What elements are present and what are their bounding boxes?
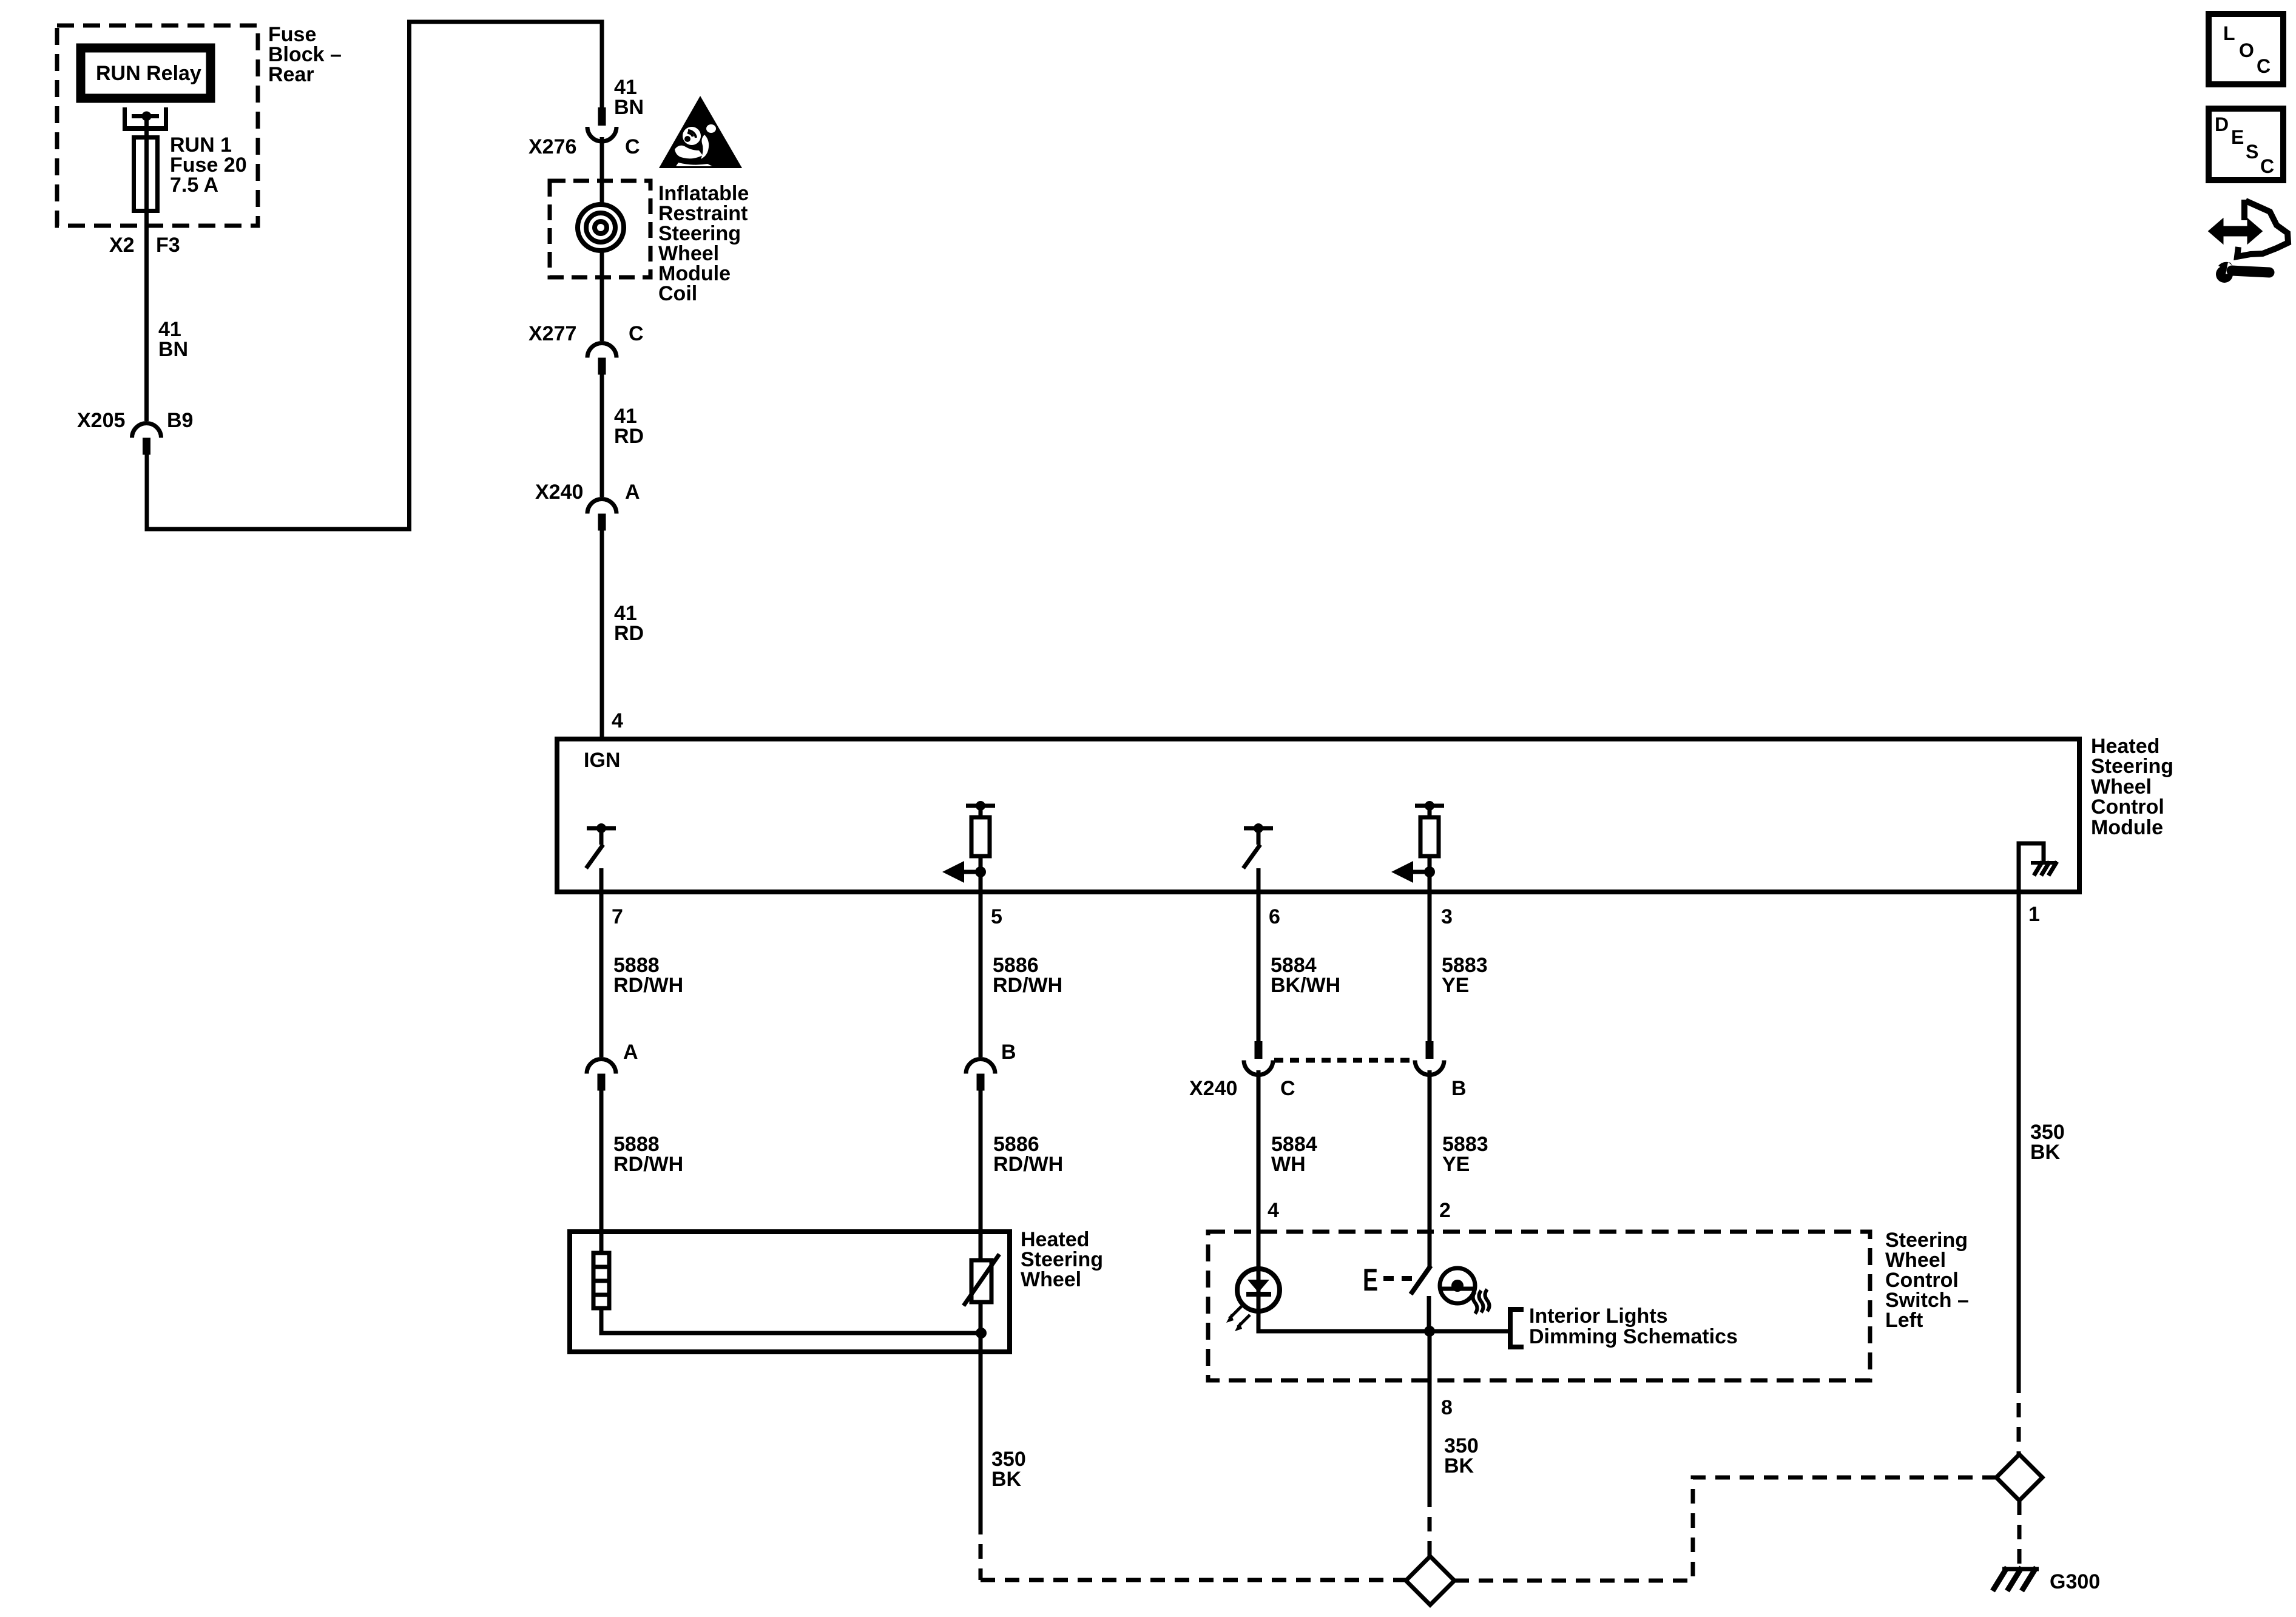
svg-text:YE: YE bbox=[1442, 974, 1469, 997]
svg-text:B9: B9 bbox=[167, 409, 193, 432]
dashed wire from mid splice to right splice bbox=[1454, 1477, 1996, 1581]
wire 5888 RD/WH A to heated wheel bbox=[601, 1091, 683, 1254]
svg-text:X2: X2 bbox=[109, 234, 135, 257]
svg-text:8: 8 bbox=[1441, 1396, 1453, 1419]
svg-text:X277: X277 bbox=[528, 322, 576, 345]
DESC reference box bbox=[2209, 109, 2283, 180]
repair/handling icon (hand with arrow and wrench) bbox=[2209, 200, 2288, 283]
svg-text:1: 1 bbox=[2028, 903, 2040, 926]
svg-text:C: C bbox=[2260, 155, 2274, 177]
switch blade with E terminal bbox=[1363, 1263, 1431, 1331]
svg-text:BK/WH: BK/WH bbox=[1271, 974, 1340, 997]
wire 41 RD lower bbox=[602, 531, 644, 740]
svg-text:BN: BN bbox=[614, 96, 644, 119]
svg-text:C: C bbox=[625, 135, 640, 158]
svg-text:RD/WH: RD/WH bbox=[613, 974, 683, 997]
svg-text:G300: G300 bbox=[2050, 1570, 2100, 1593]
svg-text:RD: RD bbox=[614, 425, 644, 448]
wire 41 RD upper bbox=[602, 375, 644, 498]
svg-text:Wheel: Wheel bbox=[1021, 1268, 1081, 1291]
Heated Steering Wheel Control Module box bbox=[557, 739, 2079, 892]
svg-text:X240: X240 bbox=[1189, 1077, 1237, 1100]
svg-text:A: A bbox=[625, 481, 640, 504]
svg-text:IGN: IGN bbox=[584, 749, 620, 772]
wire 350 BK pin 1 bbox=[2019, 894, 2065, 1379]
label Fuse Block - Rear bbox=[268, 23, 342, 86]
wire 5883 YE X240 B to switch bbox=[1430, 1070, 1488, 1266]
svg-text:Left: Left bbox=[1885, 1309, 1923, 1332]
svg-text:RD/WH: RD/WH bbox=[993, 974, 1062, 997]
airbag warning triangle icon bbox=[659, 96, 742, 168]
wire 350 BK from pin 8 bbox=[1430, 1382, 1479, 1556]
svg-text:L: L bbox=[2223, 22, 2235, 44]
ground G300 bbox=[1993, 1567, 2100, 1593]
svg-text:7: 7 bbox=[612, 905, 623, 928]
connector X240 pin A bbox=[535, 481, 640, 531]
svg-text:A: A bbox=[623, 1041, 638, 1064]
svg-text:RD/WH: RD/WH bbox=[613, 1153, 683, 1176]
svg-text:X276: X276 bbox=[528, 135, 576, 158]
svg-text:S: S bbox=[2246, 141, 2258, 163]
SIR coil dashed box bbox=[550, 181, 650, 277]
internal ground pin 1 bbox=[2019, 843, 2057, 894]
wire from X205 down, right, up and over to 41 BN drop bbox=[147, 22, 602, 529]
fuse RUN 1 / Fuse 20 / 7.5 A bbox=[134, 133, 247, 211]
svg-text:RUN Relay: RUN Relay bbox=[96, 62, 201, 85]
heated wheel internal wire bbox=[601, 1308, 987, 1338]
wire 5886 RD/WH B to heated wheel bbox=[981, 1091, 1063, 1261]
LED indicator bbox=[1226, 1269, 1280, 1331]
dashed harness line between X240 C and B bbox=[1274, 1058, 1414, 1063]
splice diamond (right) bbox=[1996, 1454, 2042, 1501]
svg-text:E: E bbox=[2231, 126, 2244, 148]
wire 5883 YE pin 3 bbox=[1430, 894, 1488, 1041]
dashed 350 BK down to right splice bbox=[2017, 1379, 2021, 1454]
svg-text:BK: BK bbox=[1444, 1454, 1474, 1477]
clockspring coil bbox=[578, 204, 624, 251]
svg-text:WH: WH bbox=[1271, 1153, 1306, 1176]
connector X276 pin C bbox=[528, 107, 640, 158]
svg-text:Module: Module bbox=[2091, 816, 2163, 839]
internal switch pin 6 bbox=[1243, 823, 1273, 894]
svg-text:C: C bbox=[1280, 1077, 1295, 1100]
svg-text:C: C bbox=[2257, 55, 2271, 77]
internal driver/resistor pin 3 bbox=[1391, 801, 1444, 894]
connector X277 pin C bbox=[528, 322, 644, 375]
svg-text:RD/WH: RD/WH bbox=[993, 1153, 1063, 1176]
label Steering Wheel Control Switch - Left bbox=[1885, 1229, 1969, 1332]
svg-text:Rear: Rear bbox=[268, 63, 314, 86]
svg-text:C: C bbox=[629, 322, 644, 345]
wire X276 to coil bbox=[600, 137, 604, 206]
connector X240 pin B (switch side) bbox=[1415, 1041, 1467, 1100]
svg-text:BN: BN bbox=[158, 338, 188, 361]
wire 5886 RD/WH pin 5 to B bbox=[981, 894, 1062, 1057]
svg-text:E: E bbox=[1363, 1263, 1378, 1298]
wire 350 BK from heated wheel bbox=[981, 1354, 1406, 1580]
wire coil to X277 bbox=[600, 251, 604, 341]
LOC reference box bbox=[2209, 14, 2283, 84]
svg-text:7.5 A: 7.5 A bbox=[170, 174, 218, 197]
svg-text:4: 4 bbox=[612, 709, 623, 732]
label 41 BN (left) bbox=[158, 318, 188, 361]
wire 5884 BK/WH pin 6 bbox=[1258, 894, 1340, 1041]
label Inflatable Restraint Steering Wheel Module Coil bbox=[658, 182, 749, 305]
svg-text:B: B bbox=[1001, 1041, 1016, 1064]
Heated Steering Wheel box bbox=[570, 1232, 1010, 1352]
svg-text:Interior Lights: Interior Lights bbox=[1529, 1305, 1668, 1328]
svg-text:5: 5 bbox=[991, 905, 1002, 928]
connector B bbox=[966, 1041, 1016, 1091]
connector X240 pin C (switch side) bbox=[1189, 1041, 1295, 1100]
label Heated Steering Wheel Control Module bbox=[2091, 735, 2173, 839]
svg-text:4: 4 bbox=[1268, 1199, 1279, 1222]
splice diamond (mid) bbox=[1406, 1556, 1454, 1605]
switch internal wire to pin 8 bbox=[1258, 1311, 1511, 1382]
svg-text:YE: YE bbox=[1442, 1153, 1470, 1176]
heater element bbox=[593, 1253, 609, 1308]
svg-text:O: O bbox=[2239, 39, 2254, 61]
svg-text:RD: RD bbox=[614, 622, 644, 645]
pin 4 label (module) bbox=[612, 709, 623, 732]
Steering Wheel Control Switch box (dashed) bbox=[1208, 1232, 1870, 1380]
dashed wire right splice to G300 bbox=[2017, 1501, 2022, 1565]
reference bracket to Interior Lights Dimming Schematics bbox=[1510, 1305, 1738, 1348]
svg-text:B: B bbox=[1451, 1077, 1467, 1100]
pin labels 4 and 2 (switch) bbox=[1268, 1199, 1451, 1222]
RUN Relay box bbox=[81, 48, 211, 98]
connector A bbox=[587, 1041, 638, 1091]
thermistor bbox=[964, 1254, 999, 1354]
svg-text:BK: BK bbox=[2030, 1141, 2061, 1164]
svg-text:6: 6 bbox=[1269, 905, 1280, 928]
labels X2 F3 bbox=[109, 234, 180, 257]
connector X205 pin B9 bbox=[77, 409, 193, 455]
svg-text:Coil: Coil bbox=[658, 282, 697, 305]
relay output bus symbol bbox=[123, 107, 168, 129]
label Heated Steering Wheel bbox=[1021, 1228, 1103, 1291]
svg-text:D: D bbox=[2215, 113, 2229, 135]
label 41 BN (top) bbox=[614, 76, 644, 119]
wire 5888 RD/WH pin 7 to A bbox=[601, 894, 683, 1057]
wire from relay through fuse down to X205 bbox=[144, 116, 149, 422]
svg-text:BK: BK bbox=[991, 1468, 1022, 1491]
svg-text:3: 3 bbox=[1441, 905, 1453, 928]
svg-text:Control: Control bbox=[2091, 795, 2164, 819]
svg-text:F3: F3 bbox=[156, 234, 180, 257]
fuse block - rear dashed box bbox=[57, 25, 258, 226]
svg-text:X240: X240 bbox=[535, 481, 583, 504]
internal driver/resistor pin 5 bbox=[942, 801, 995, 894]
svg-text:Steering: Steering bbox=[2091, 755, 2173, 778]
wire 5884 WH X240 C to switch bbox=[1258, 1070, 1317, 1269]
pin labels 7 5 6 3 1 bbox=[612, 903, 2040, 928]
internal switch pin 7 bbox=[586, 823, 616, 894]
svg-text:X205: X205 bbox=[77, 409, 125, 432]
svg-text:2: 2 bbox=[1439, 1199, 1451, 1222]
pin 8 label bbox=[1441, 1396, 1453, 1419]
heated wheel switch indicator icon bbox=[1440, 1268, 1490, 1314]
svg-text:Dimming Schematics: Dimming Schematics bbox=[1529, 1325, 1738, 1348]
